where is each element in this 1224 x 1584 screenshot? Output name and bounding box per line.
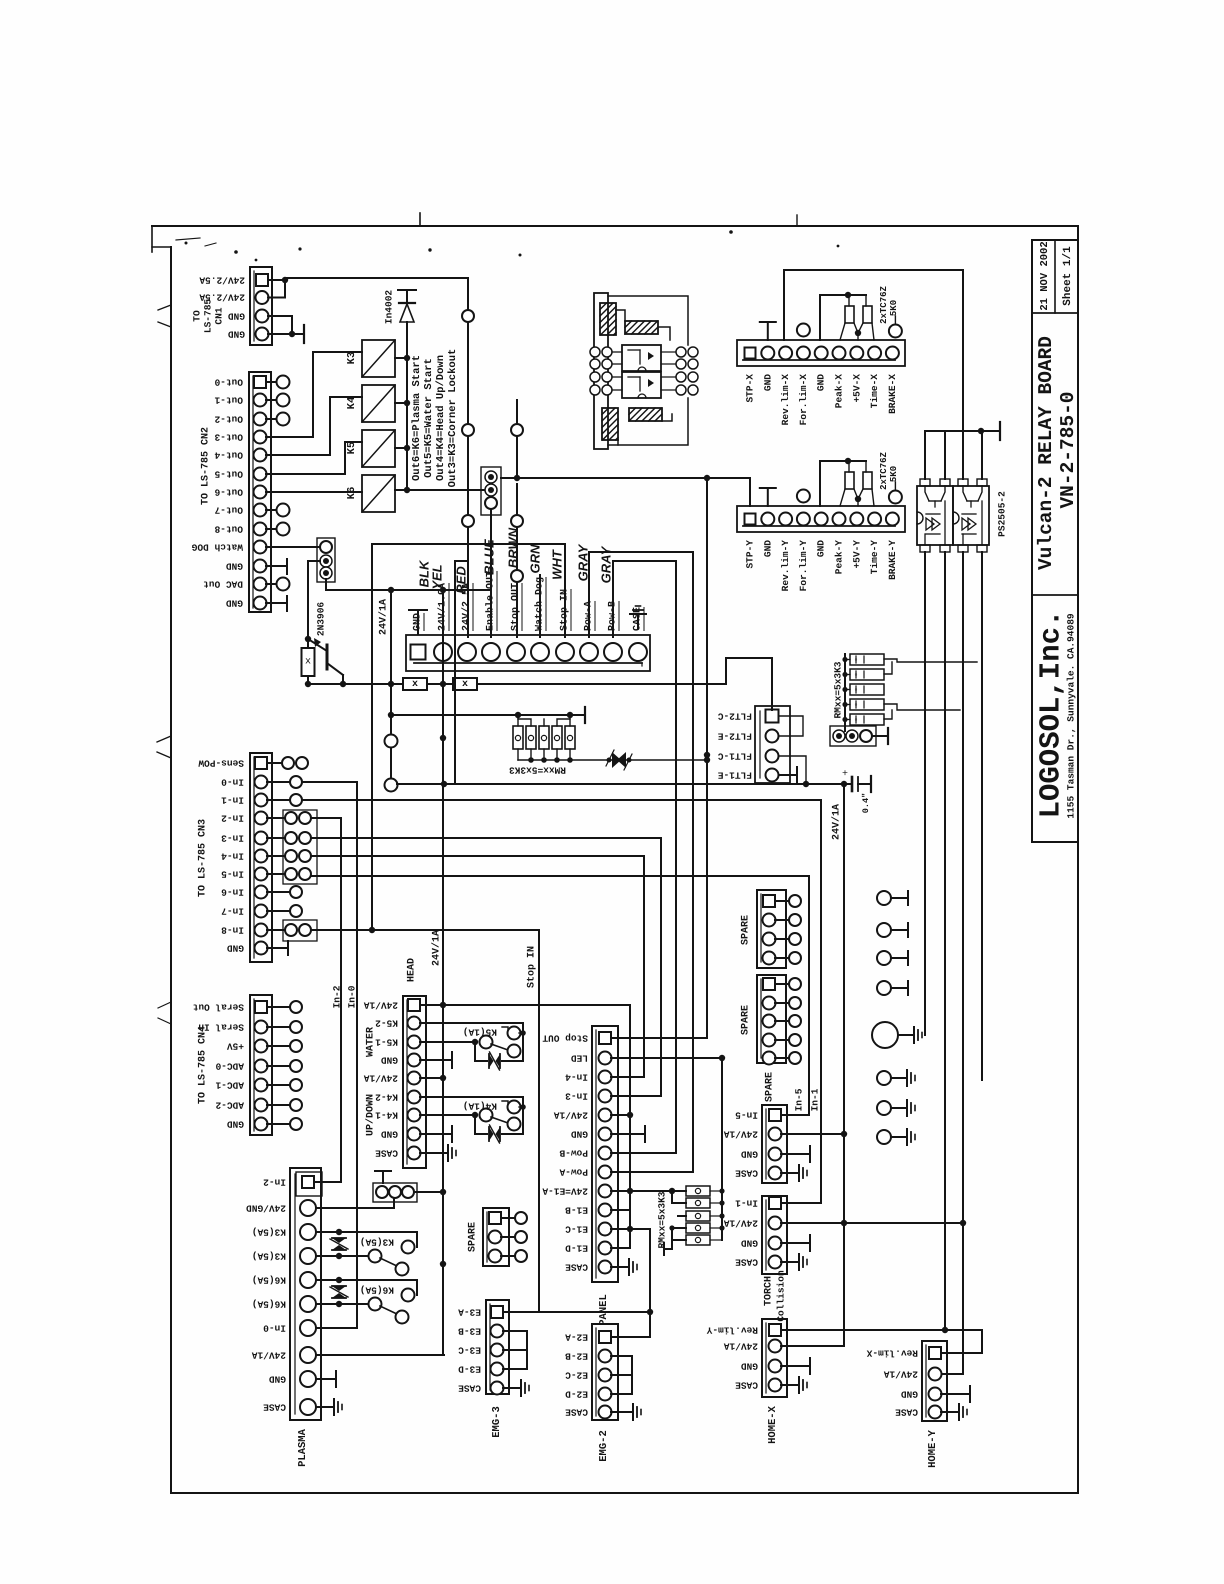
svg-text:GND: GND xyxy=(226,598,243,609)
wire K4 out stub xyxy=(395,402,407,404)
svg-text:WATER: WATER xyxy=(366,1027,377,1057)
connector CN2 pin Out-2 xyxy=(254,413,267,426)
connector STP-X pin Rev.lim-X xyxy=(779,347,792,360)
svg-text:K4(1A): K4(1A) xyxy=(463,1101,497,1112)
svg-text:LED: LED xyxy=(571,1053,588,1064)
svg-text:21 NOV 2002: 21 NOV 2002 xyxy=(1039,241,1051,310)
capacitor C1 0.4in xyxy=(851,777,854,791)
connector PLASMA pin 24V/GND xyxy=(300,1200,316,1216)
connector HEAD pin GND xyxy=(408,1128,421,1141)
connector PLASMA pin K6(5A) xyxy=(300,1272,316,1288)
svg-text:HEAD: HEAD xyxy=(407,958,418,982)
svg-text:Time-X: Time-X xyxy=(869,374,880,409)
footprint pad row right y364 xyxy=(661,363,676,365)
connector PANEL pin Pow-B xyxy=(599,1147,612,1160)
svg-text:24V=E1-A: 24V=E1-A xyxy=(542,1186,588,1197)
connector CN3 In-0 pad xyxy=(267,781,290,783)
svg-text:CASE: CASE xyxy=(458,1383,481,1394)
connector P1 pin Stop IN xyxy=(556,643,574,661)
wire 24V/1A drop x391 xyxy=(390,590,392,684)
connector PANEL pin E1-B xyxy=(599,1204,612,1217)
resistor network RM3 5x3K3 xyxy=(686,1186,710,1196)
footprint optocoupler IC2 box xyxy=(622,372,661,398)
wire RM1 tops xyxy=(517,715,519,726)
connector SPARE-U2 pin 3 xyxy=(763,1015,776,1028)
connector PANEL pin GND xyxy=(599,1128,612,1141)
wire TORCH In-1 feed xyxy=(781,1202,821,1204)
ground CN3 GND T-bar xyxy=(267,947,288,949)
connector HOME-Y pin Rev.lim-X xyxy=(929,1347,941,1359)
svg-text:In-1: In-1 xyxy=(735,1198,758,1209)
border frame top edge xyxy=(152,225,1078,227)
connector CN2 pin GND xyxy=(254,597,267,610)
connector CN4 pin ADC-0 xyxy=(255,1060,268,1073)
ground J4 T-bar up xyxy=(382,1171,384,1183)
svg-text:E1-C: E1-C xyxy=(565,1224,588,1235)
wire PANEL StopOut sq xyxy=(611,1037,707,1039)
svg-text:In-0: In-0 xyxy=(221,777,244,788)
connector HEAD pin CASE xyxy=(408,1147,421,1160)
connector PLASMA pin K6(5A) xyxy=(300,1296,316,1312)
wire jumper J2 to transistor base rail xyxy=(308,560,320,562)
via hole above For.lim-Y xyxy=(797,490,810,503)
wire stop-in lower drop x539 xyxy=(538,930,540,1311)
resistor F2 x-box xyxy=(453,678,477,690)
svg-text:GRN: GRN xyxy=(528,544,543,574)
svg-text:GND: GND xyxy=(816,374,827,391)
wire pow-a pin up xyxy=(588,552,590,637)
connector HOME-Y pin CASE xyxy=(929,1406,942,1419)
connector CN2 pin Out-5 xyxy=(254,468,267,481)
svg-text:Out5=K5=Water Start: Out5=K5=Water Start xyxy=(423,358,435,478)
wire EMG-2 sq to StopOut rail xyxy=(611,1336,650,1338)
wire pow-b pin up xyxy=(612,561,614,637)
svg-text:E2-C: E2-C xyxy=(565,1370,588,1381)
connector SPARE-U2 body xyxy=(757,975,786,1063)
svg-text:Rev.lim-Y: Rev.lim-Y xyxy=(706,1325,758,1336)
ground STP-Y GND T-bar xyxy=(767,488,769,506)
jumper J4 block xyxy=(373,1183,417,1202)
connector CN3 In-7 pad xyxy=(267,910,290,912)
svg-text:x: x xyxy=(412,679,418,690)
svg-text:GND: GND xyxy=(762,374,773,391)
svg-text:2xTC76Z: 2xTC76Z xyxy=(879,452,889,490)
svg-text:BRAKE-Y: BRAKE-Y xyxy=(887,540,898,580)
svg-text:GND: GND xyxy=(816,540,827,557)
svg-text:24V/1A: 24V/1A xyxy=(553,1110,588,1121)
svg-text:E3-A: E3-A xyxy=(458,1307,481,1318)
svg-text:+5V-X: +5V-X xyxy=(851,374,862,403)
wire top 24V rail horizontal xyxy=(784,269,963,271)
svg-text:TO LS-785 CN2: TO LS-785 CN2 xyxy=(201,427,212,505)
capacitor C1 wire and ground xyxy=(858,783,871,785)
svg-text:GND: GND xyxy=(227,1119,244,1130)
wire 24V/1A bus x443 xyxy=(442,590,444,1355)
svg-text:Out-5: Out-5 xyxy=(214,469,243,480)
svg-text:HOME-X: HOME-X xyxy=(767,1405,779,1444)
relay K6 coil box xyxy=(362,475,395,512)
svg-text:Out3=K3=Corner Lockout: Out3=K3=Corner Lockout xyxy=(447,349,459,488)
svg-text:WHT: WHT xyxy=(550,549,565,580)
ground J3 T-bar xyxy=(872,735,888,737)
connector PANEL pin 24V/1A xyxy=(599,1109,612,1122)
border fold tick left 3 xyxy=(157,736,171,742)
connector STP-X body xyxy=(737,340,905,366)
border fold tick left 4 xyxy=(158,1002,171,1008)
svg-text:In-4: In-4 xyxy=(221,851,244,862)
connector STP-Y pin GND xyxy=(761,513,774,526)
svg-text:CASE: CASE xyxy=(735,1380,758,1391)
connector CN2 pin Out-6 xyxy=(254,486,267,499)
ground HEAD GND2 T-bar xyxy=(420,1133,452,1135)
connector TORCH pin CASE xyxy=(769,1256,782,1269)
footprint wire bottom link xyxy=(617,440,619,445)
testpoint circle y898 xyxy=(877,891,891,905)
resistor network RM3 left links xyxy=(671,1191,673,1203)
svg-text:In-1: In-1 xyxy=(221,795,244,806)
svg-text:In-8: In-8 xyxy=(221,925,244,936)
svg-text:K6(5A): K6(5A) xyxy=(252,1299,286,1310)
connector CN4 body xyxy=(250,995,272,1135)
connector EMG-2 pin E2-B xyxy=(599,1350,612,1363)
wire In-4 run xyxy=(311,855,644,857)
relay contact K5(1A) xyxy=(420,1022,523,1024)
connector CN3 body xyxy=(250,753,272,962)
testpoint circle y930 xyxy=(877,923,891,937)
svg-text:YEL: YEL xyxy=(430,564,445,589)
svg-text:Rev.lim-X: Rev.lim-X xyxy=(866,1348,918,1359)
svg-text:GND: GND xyxy=(741,1361,758,1372)
connector FLT pin FLT1-C xyxy=(766,750,779,763)
connector CN4 pin ADC-1 xyxy=(255,1079,268,1092)
wire In-2 run xyxy=(311,817,341,819)
connector PANEL pin LED xyxy=(599,1052,612,1065)
connector P1 pin Enable OUT xyxy=(482,643,500,661)
svg-text:Out6=K6=Plasma Start: Out6=K6=Plasma Start xyxy=(411,355,423,481)
footprint hatched resistor top xyxy=(625,321,658,334)
connector HEAD pin GND xyxy=(408,1054,421,1067)
connector CN3 In-8 pad block xyxy=(283,920,317,941)
svg-text:GND: GND xyxy=(901,1389,918,1400)
wire rail y715 to RM1 xyxy=(391,714,570,716)
svg-text:In-4: In-4 xyxy=(565,1072,588,1083)
ground rail y715 T-bar xyxy=(570,714,585,716)
wire PANEL Pow-A stub xyxy=(611,1171,693,1173)
svg-text:SPARE: SPARE xyxy=(741,915,752,945)
svg-text:24V/1A: 24V/1A xyxy=(431,930,443,966)
connector CN4 pin +5V xyxy=(255,1040,268,1053)
svg-text:Peak-X: Peak-X xyxy=(834,374,845,409)
resistor network RM1 5x3K3 center xyxy=(513,726,523,749)
wire K3 out stub xyxy=(395,357,407,359)
wire HOME-X 24V stub xyxy=(781,1345,844,1347)
wire stop-out feed to STP-Y xyxy=(501,477,750,479)
connector PANEL pin CASE xyxy=(599,1261,612,1274)
connector SPARE-U2 pin 2 xyxy=(763,997,776,1010)
connector P1 main header body xyxy=(406,635,650,671)
connector SPARE-U2 pin 1 xyxy=(763,978,775,990)
connector CN3 In-1 pad xyxy=(267,799,290,801)
ground P1 CASE earth xyxy=(637,614,639,628)
svg-text:FLT2-C: FLT2-C xyxy=(717,711,752,722)
connector FLT body xyxy=(755,706,790,783)
svg-text:Rev.lim-X: Rev.lim-X xyxy=(780,374,791,426)
footprint wire top loop xyxy=(608,296,688,345)
connector FLT pin FLT2-C xyxy=(766,710,779,723)
wire STP-Y pin1 drop xyxy=(749,478,751,506)
connector CN4 pin GND xyxy=(255,1118,268,1131)
connector P1 pin Watch Dog xyxy=(531,643,549,661)
connector CN1 pin2 24V/2.5A xyxy=(256,291,269,304)
wire PANEL In-3 stub xyxy=(611,1095,661,1097)
wire StopOut vertical x707 xyxy=(706,478,708,1038)
testpoint circle y988 xyxy=(877,981,891,995)
svg-text:Enable OUT: Enable OUT xyxy=(485,571,497,631)
svg-text:Stop OUT: Stop OUT xyxy=(511,583,522,631)
wire 24V/1A bus right x844 xyxy=(843,784,845,1346)
svg-text:FLT1-C: FLT1-C xyxy=(717,751,752,762)
svg-text:Time-Y: Time-Y xyxy=(869,540,880,575)
optocoupler U2 PS2505 xyxy=(953,486,989,545)
scan specks top left xyxy=(185,242,188,245)
optocoupler U1 PS2505 xyxy=(917,486,953,545)
wire TORCH 24V run xyxy=(781,1222,963,1224)
ground HOME-X GND T-bar xyxy=(781,1365,810,1367)
svg-text:GND: GND xyxy=(228,329,245,340)
svg-text:E2-B: E2-B xyxy=(565,1351,588,1362)
svg-text:K3(5A): K3(5A) xyxy=(360,1237,394,1248)
title block divider title/company xyxy=(1032,594,1078,596)
wire In-8 run xyxy=(311,929,539,931)
svg-text:For.lim-X: For.lim-X xyxy=(798,374,809,426)
wire LED resistor bus x722 xyxy=(721,1058,723,1240)
connector CN3 pin In-1 xyxy=(255,794,268,807)
connector SPARE-4 pin In-5 xyxy=(769,1109,781,1121)
svg-text:K6(5A): K6(5A) xyxy=(252,1275,286,1286)
connector HOME-X body xyxy=(762,1319,787,1397)
connector SPARE-U1 pin 4 xyxy=(763,952,776,965)
wire rail y784 to cap node xyxy=(397,783,852,785)
svg-text:Collision: Collision xyxy=(776,1270,787,1322)
svg-text:PS2505-2: PS2505-2 xyxy=(997,491,1008,537)
connector SPARE-L pin p1 xyxy=(489,1212,501,1224)
wire stop-in frame drop x372 xyxy=(371,544,373,930)
wire watchdog node row xyxy=(326,589,491,591)
testpoint circle earth y1137 xyxy=(877,1130,891,1144)
wire stopout verticals with vias xyxy=(516,582,518,637)
ground EMG-2 CASE earth xyxy=(611,1411,633,1413)
svg-text:E2-A: E2-A xyxy=(565,1332,588,1343)
wire Q1 base resistor leads xyxy=(307,639,309,648)
svg-text:CASE: CASE xyxy=(375,1148,398,1159)
wire watchdog pin up xyxy=(539,575,541,637)
svg-text:GND: GND xyxy=(226,561,243,572)
connector STP-Y pin Rev.lim-Y xyxy=(779,513,792,526)
ground CN2 GND2 T-bar xyxy=(266,602,287,604)
wire EMG-3 bracket xyxy=(503,1330,527,1332)
svg-text:PLASMA: PLASMA xyxy=(297,1428,309,1467)
svg-text:x: x xyxy=(305,657,311,668)
svg-text:Pow-B: Pow-B xyxy=(559,1148,588,1159)
relay contact K6(5A) xyxy=(316,1279,339,1281)
svg-text:In-2: In-2 xyxy=(263,1177,286,1188)
relay contact K3(5A) xyxy=(316,1231,339,1233)
connector STP-Y pin For.lim-Y xyxy=(797,513,810,526)
svg-text:In-7: In-7 xyxy=(221,906,244,917)
connector HOME-Y pin GND xyxy=(929,1388,942,1401)
svg-text:K5: K5 xyxy=(346,442,358,455)
wire relay bus to jumper J1 xyxy=(407,489,485,491)
wire jumper J2 bottom to node xyxy=(325,579,327,590)
svg-text:GND: GND xyxy=(741,1149,758,1160)
svg-text:Seral In: Seral In xyxy=(198,1022,244,1033)
svg-text:E3-D: E3-D xyxy=(458,1364,481,1375)
footprint optocoupler IC1 box xyxy=(622,345,661,371)
connector CN3 pin GND xyxy=(255,942,268,955)
svg-text:24V/1A: 24V/1A xyxy=(883,1369,918,1380)
wire pow-a vertical x693 xyxy=(692,552,694,1172)
svg-text:+: + xyxy=(842,769,848,780)
ground EMG-3 CASE earth xyxy=(503,1387,521,1389)
svg-text:K5-1: K5-1 xyxy=(375,1037,398,1048)
connector CN1 body xyxy=(250,267,272,345)
svg-text:HOME-Y: HOME-Y xyxy=(927,1429,939,1468)
ground HOME-Y GND T-bar xyxy=(941,1393,970,1395)
svg-text:2xTC76Z: 2xTC76Z xyxy=(879,286,889,324)
svg-text:24V/2.5A: 24V/2.5A xyxy=(199,292,245,303)
connector TORCH pin 24V/1A xyxy=(769,1217,782,1230)
connector P1 pin Pow-B xyxy=(604,643,622,661)
svg-text:GND: GND xyxy=(571,1129,588,1140)
ground PLASMA CASE earth xyxy=(316,1406,334,1408)
svg-text:K4: K4 xyxy=(346,397,358,410)
svg-text:RMxx=5x3K3: RMxx=5x3K3 xyxy=(657,1191,668,1248)
svg-text:In-3: In-3 xyxy=(565,1091,588,1102)
connector HEAD pin K4-1 xyxy=(408,1109,421,1122)
resistor network RM2 5x3K3 xyxy=(850,654,884,665)
connector PANEL body xyxy=(592,1026,618,1282)
connector STP-Y body xyxy=(737,506,905,532)
footprint hatched resistor top-left xyxy=(600,303,616,335)
svg-text:GND: GND xyxy=(762,540,773,557)
connector HOME-Y body xyxy=(922,1341,947,1421)
wire emitter node to 684 rail xyxy=(340,681,346,687)
connector HEAD pin 24V/1A xyxy=(408,1072,421,1085)
svg-text:ADC-0: ADC-0 xyxy=(215,1061,244,1072)
svg-text:CASE: CASE xyxy=(735,1168,758,1179)
ground PLASMA GND T-bar xyxy=(316,1378,336,1380)
svg-text:TO LS-785 CN4: TO LS-785 CN4 xyxy=(198,1026,209,1104)
connector P1 pin Pow-A xyxy=(580,643,598,661)
wire x455 drop xyxy=(454,561,456,784)
connector CN3 pin In-0 xyxy=(255,776,268,789)
connector PLASMA pin In-0 xyxy=(300,1320,316,1336)
connector STP-Y pin +5V-Y xyxy=(850,513,863,526)
wire CN2 Out-5 to K5 xyxy=(266,442,362,474)
border frame left edge xyxy=(170,247,172,1493)
connector HOME-Y pin 24V/1A xyxy=(929,1368,942,1381)
svg-text:K3: K3 xyxy=(346,352,358,365)
connector CN4 pin Seral Out xyxy=(255,1001,267,1013)
svg-text:Stop IN: Stop IN xyxy=(527,946,538,988)
connector SPARE-U2 pin 4 xyxy=(763,1034,776,1047)
connector PANEL pin Pow-A xyxy=(599,1166,612,1179)
svg-text:K5-2: K5-2 xyxy=(375,1018,398,1029)
svg-text:In-2: In-2 xyxy=(332,985,343,1008)
via circle on 24V/1A drop xyxy=(385,735,398,748)
connector EMG-2 pin E2-A xyxy=(599,1331,611,1343)
svg-text:FLT1-E: FLT1-E xyxy=(717,770,752,781)
connector PANEL pin E1-C xyxy=(599,1223,612,1236)
svg-text:K6: K6 xyxy=(346,487,358,500)
footprint wire top link xyxy=(616,310,625,321)
connector CN2 pin Out-4 xyxy=(254,449,267,462)
wire bus x963 down xyxy=(962,552,964,1223)
svg-text:24V/1A: 24V/1A xyxy=(723,1218,758,1229)
connector PANEL pin Stop OUT xyxy=(599,1032,611,1044)
wire stop-in top rail y544 xyxy=(372,543,565,545)
wire SPARE-4 24V stub xyxy=(781,1133,844,1135)
connector CN1 pin4 GND xyxy=(256,328,269,341)
wire K6 out stub xyxy=(395,489,407,491)
svg-text:TO LS-785 CN3: TO LS-785 CN3 xyxy=(198,819,209,897)
svg-text:STP-X: STP-X xyxy=(745,374,756,403)
svg-text:Out-6: Out-6 xyxy=(214,487,243,498)
svg-text:K4-2: K4-2 xyxy=(375,1092,398,1103)
svg-text:Out-8: Out-8 xyxy=(214,524,243,535)
connector CN3 In-6 pad xyxy=(267,891,290,893)
connector PLASMA pin In-2 xyxy=(302,1176,314,1188)
relay K4 coil box xyxy=(362,385,395,422)
footprint hatched resistor bottom xyxy=(629,408,662,421)
wire TORCH 24V drop to HOME-Y xyxy=(941,1373,963,1375)
diode D1 In4002 xyxy=(399,302,415,304)
jumper J3 block xyxy=(830,726,876,746)
connector FLT pin FLT2-E xyxy=(766,730,779,743)
svg-text:RMxx=5x3K3: RMxx=5x3K3 xyxy=(833,661,844,718)
resistor RN1 2xTC76Z 5K0 xyxy=(845,306,854,323)
svg-text:TO: TO xyxy=(192,310,203,322)
ground HOME-Y CASE earth xyxy=(941,1411,959,1413)
svg-text:GND: GND xyxy=(381,1055,398,1066)
connector CN3 pin In-5 xyxy=(255,868,268,881)
svg-text:CASE: CASE xyxy=(895,1407,918,1418)
connector HEAD body xyxy=(403,996,426,1168)
connector EMG-2 body xyxy=(592,1324,618,1420)
border tick mark top xyxy=(419,213,421,226)
connector CN1 pin1 24V/2.5A xyxy=(256,274,268,286)
connector CN2 pin Out-0 xyxy=(254,376,266,388)
svg-text:Out-2: Out-2 xyxy=(214,414,243,425)
resistor network RM2 left bus xyxy=(844,654,846,731)
svg-text:24V/1A: 24V/1A xyxy=(723,1341,758,1352)
connector P1 pin 24V/2.5A xyxy=(458,643,476,661)
svg-text:24V/2.5A: 24V/2.5A xyxy=(199,275,245,286)
connector P1 pin Stop OUT xyxy=(507,643,525,661)
svg-text:In-6: In-6 xyxy=(221,887,244,898)
connector STP-X pin +5V-X xyxy=(850,347,863,360)
via hole above For.lim-X xyxy=(797,324,810,337)
svg-text:24V/GND: 24V/GND xyxy=(246,1203,286,1214)
ground FLT1-E T-bar xyxy=(779,774,797,776)
wire PANEL 24V stub xyxy=(611,1114,630,1116)
svg-text:24V/1A: 24V/1A xyxy=(723,1129,758,1140)
connector CN2 pin GND xyxy=(254,560,267,573)
connector CN1 pin3 GND xyxy=(256,310,269,323)
wire PS2505 gnd bus y431 xyxy=(925,430,990,432)
connector SPARE-L pin p2 xyxy=(489,1231,502,1244)
suppressor TVS pair xyxy=(518,759,707,761)
